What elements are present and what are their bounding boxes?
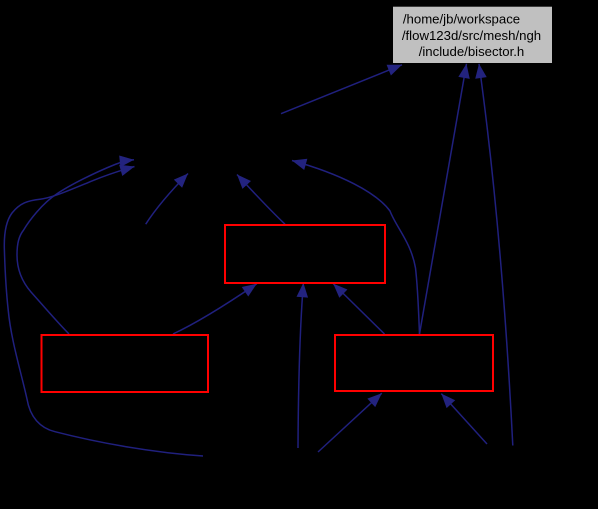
wire E7: bottom-right invisible node to right red node bottom xyxy=(441,394,487,444)
svg-text:/home/jb/workspace: /home/jb/workspace xyxy=(403,12,520,27)
wire E8: bottom-left invisible node to right red node bottom xyxy=(318,393,382,452)
wire E1: middle red node top to invisible node N1 bottom xyxy=(237,175,285,225)
svg-text:/include/bisector.h: /include/bisector.h xyxy=(419,44,525,59)
node: left red box (truncated node) xyxy=(42,335,209,392)
wire E12: left red node top curving far left up to invisible node N1 left side xyxy=(17,160,134,334)
wire E2: invisible node N2 top to invisible node N1 bottom xyxy=(146,174,188,225)
wire E4: right red node top curving to invisible node N1 right side xyxy=(292,161,420,335)
node: right red box (truncated node) xyxy=(335,335,493,391)
wire E5: right red node top to main node bottom xyxy=(420,64,467,334)
wire E10: right red node top to middle red node bottom xyxy=(333,284,384,334)
wire E9: bottom-left invisible node to middle red node bottom xyxy=(298,283,303,448)
wire E11: left red node top to middle red node bottom xyxy=(173,284,257,334)
wire E13: bottom-left invisible node curving far left up to invisible node N1 left side xyxy=(4,167,203,457)
wire E6: bottom-right invisible node to main node bottom xyxy=(479,64,513,446)
svg-text:/flow123d/src/mesh/ngh: /flow123d/src/mesh/ngh xyxy=(402,28,541,43)
node: middle red box (truncated node) xyxy=(225,225,385,283)
wire E3: invisible node N1 top to main node lower-left xyxy=(281,65,402,114)
node: main node /home/jb/workspace/flow123d/src/mesh/ngh/include/bisector.h xyxy=(393,7,552,63)
